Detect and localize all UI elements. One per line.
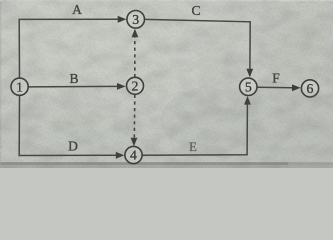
- scan noise overlay: [0, 0, 333, 168]
- node 6: [301, 80, 318, 97]
- arrowhead into node 4: [116, 152, 125, 159]
- wire F: node5 right to node6: [257, 86, 292, 89]
- left scan edge: [0, 0, 1, 168]
- node 1: [11, 78, 28, 95]
- node 3: [127, 10, 145, 28]
- top light edge: [0, 0, 333, 1]
- wire D: node1 down then right to node4: [19, 96, 116, 156]
- wire C: node3 right then down to node5: [145, 19, 250, 69]
- arrowhead into node 6: [292, 84, 301, 91]
- arrowhead into node 5 (down): [246, 69, 253, 78]
- paper background: [0, 0, 333, 168]
- bottom scan shadow band: [0, 165, 333, 168]
- wire E: node4 right then up to node5: [142, 104, 247, 155]
- wire A: node1 up then right to node3: [19, 19, 118, 78]
- arrowhead into node 3: [118, 16, 127, 23]
- dummy arrow node2 to node4 (dashed down): [133, 95, 136, 141]
- scan shading patches: [0, 0, 333, 160]
- arrowhead into node 2: [117, 83, 126, 90]
- wire B: node1 right to node2: [29, 85, 118, 88]
- node 4: [125, 146, 142, 163]
- dummy arrow node2 to node3 (dashed up): [134, 34, 136, 78]
- node 2: [127, 77, 144, 94]
- arrowhead into node 5 (up): [244, 96, 251, 105]
- node 5: [240, 78, 257, 95]
